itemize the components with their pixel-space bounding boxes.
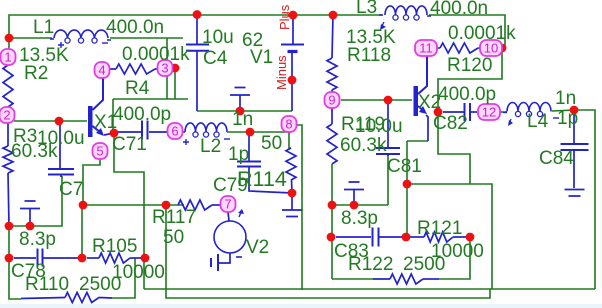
resistor R105 <box>87 253 141 263</box>
wire X2 emitter net down <box>406 141 408 237</box>
junction dot (82,258) <box>78 254 87 263</box>
ground near C7 <box>20 201 40 226</box>
label 400.0n L1 <box>106 17 164 38</box>
svg-text:0.0001k: 0.0001k <box>448 23 516 44</box>
junction dot (30,226) <box>26 222 35 231</box>
capacitor C7 <box>48 122 74 177</box>
wire stage2 mid vertical <box>331 205 333 279</box>
wire R4 feedback bottom <box>113 98 188 100</box>
label V1 <box>250 47 273 68</box>
junction dot (9,38) <box>5 34 14 43</box>
svg-text:R121: R121 <box>417 218 462 239</box>
polarity arrow V2 <box>238 209 244 217</box>
node 4 <box>95 62 110 78</box>
wire node 8 right riser <box>297 125 302 290</box>
label 60.3k R3 <box>11 141 58 162</box>
label 13.5K R118 <box>346 27 396 48</box>
wire R122 left lead <box>332 278 373 280</box>
label 1p right <box>557 108 578 129</box>
wire right edge <box>575 110 595 289</box>
junction dot (83,205) <box>79 201 88 210</box>
wire X2 emitter bend <box>407 140 428 142</box>
label R4 <box>125 78 150 99</box>
inductor L1 <box>50 30 111 43</box>
wire node 5 down <box>83 159 100 205</box>
junction dot (470,237) <box>466 233 475 242</box>
svg-text:R4: R4 <box>125 78 150 99</box>
resistor R118 <box>327 15 337 92</box>
svg-text:2500: 2500 <box>79 274 121 295</box>
resistor R3 <box>3 123 13 226</box>
svg-text:Plus: Plus <box>277 4 292 30</box>
svg-text:0.0001k: 0.0001k <box>122 44 190 65</box>
svg-text:50: 50 <box>261 133 282 154</box>
capacitor C84 <box>561 110 589 188</box>
capacitor C82 <box>443 103 477 121</box>
wire node3 box left side <box>166 38 168 99</box>
polarity minus L1 <box>102 42 108 44</box>
svg-text:R2: R2 <box>24 63 48 84</box>
wire node3 dot to feedback row <box>174 69 176 99</box>
source V2 <box>214 212 246 263</box>
polarity plus L2 <box>183 139 189 145</box>
label 2500 R122 <box>403 254 445 275</box>
label 1n left <box>232 109 253 130</box>
label R2 <box>24 63 48 84</box>
svg-text:R114: R114 <box>237 167 287 191</box>
label C4 <box>203 48 228 69</box>
svg-text:C82: C82 <box>433 113 468 134</box>
wire mid vertical to bottom bus <box>166 205 490 298</box>
svg-text:400.0n: 400.0n <box>430 0 488 19</box>
svg-text:R118: R118 <box>347 45 391 66</box>
label 50 R117 <box>163 227 184 248</box>
label C82 <box>433 113 468 134</box>
resistor R120 <box>437 43 480 53</box>
resistor R121 <box>410 232 466 242</box>
ground under R114 <box>282 193 302 217</box>
svg-text:Minus: Minus <box>274 55 289 90</box>
junction dot (59,121) <box>55 117 64 126</box>
label 60.3k R119 <box>340 135 387 156</box>
label R114 <box>237 167 287 191</box>
svg-text:10u: 10u <box>202 27 234 48</box>
inductor L2 <box>182 123 289 137</box>
label L1 <box>33 17 54 38</box>
ground V2 <box>211 254 218 271</box>
junction dot (332,205) <box>328 201 337 210</box>
label C71 <box>112 134 147 155</box>
svg-text:10.0u: 10.0u <box>355 116 403 137</box>
svg-text:X1: X1 <box>94 112 117 133</box>
svg-text:C7: C7 <box>59 179 83 200</box>
svg-text:11: 11 <box>419 41 433 56</box>
capacitor C79 <box>237 132 292 193</box>
junction dot (574,110) <box>570 106 579 115</box>
node 7 <box>221 196 236 212</box>
label 2500 R110 <box>79 274 121 295</box>
node 11 <box>415 40 437 56</box>
junction dot (502,48) <box>498 44 507 53</box>
wire emitter row to R117 <box>83 204 184 206</box>
svg-text:6: 6 <box>171 124 178 139</box>
label L4 <box>527 111 549 132</box>
label C78 <box>11 261 46 282</box>
label R105 <box>92 236 137 257</box>
capacitor C78 <box>14 249 79 267</box>
svg-text:1: 1 <box>4 50 11 65</box>
junction dot (240,111) <box>236 107 245 116</box>
capacitor C83 <box>336 228 405 247</box>
svg-text:C84: C84 <box>539 148 574 169</box>
label Plus V1 <box>277 4 292 30</box>
label C81 <box>387 156 422 177</box>
label 400.0p C71 <box>113 104 171 125</box>
junction dot (145,258) <box>141 254 150 263</box>
label 0.0001k R120 <box>448 23 516 44</box>
wire L1 row <box>9 37 52 39</box>
svg-text:1n: 1n <box>555 88 576 109</box>
battery V1 <box>281 15 304 111</box>
svg-text:9: 9 <box>328 93 335 108</box>
label 0.0001k R4 <box>122 44 190 65</box>
resistor R114 <box>286 132 296 193</box>
resistor R122 <box>373 274 439 284</box>
label 10u C4 <box>202 27 234 48</box>
svg-text:1p: 1p <box>228 144 249 165</box>
faint bottom artifact band <box>0 304 602 308</box>
wire y184 row <box>407 184 492 289</box>
label L3 <box>356 0 377 18</box>
junction dot (9,226) <box>5 222 14 231</box>
polarity arrow L4 <box>508 119 513 126</box>
svg-text:C81: C81 <box>387 156 422 177</box>
resistor R117 <box>178 200 221 210</box>
wire R110 right riser <box>112 258 135 298</box>
wire feedback to X1 emitter <box>112 99 114 130</box>
label 10000 R121 <box>431 241 484 262</box>
resistor R119 <box>327 108 337 164</box>
label 10.0u C81 <box>355 116 403 137</box>
node 12 <box>478 104 500 120</box>
capacitor C81 <box>376 101 400 156</box>
capacitor C4 <box>186 15 209 111</box>
junction dot (438,112) <box>434 108 443 117</box>
junction dot (333,15) <box>329 11 338 20</box>
svg-text:400.0p: 400.0p <box>438 84 496 105</box>
wire node 2 to X1 base <box>14 120 87 122</box>
label L2 <box>200 136 221 157</box>
svg-text:60.3k: 60.3k <box>11 141 58 162</box>
transistor X1 <box>88 78 114 137</box>
label R110 <box>25 274 69 295</box>
wire C4 V1 ground row <box>197 110 292 112</box>
label R122 <box>348 254 393 275</box>
inductor L3 <box>379 6 431 20</box>
label 62 V1 <box>242 30 263 51</box>
polarity minus L4 <box>553 117 559 119</box>
svg-text:L1: L1 <box>33 17 54 38</box>
svg-text:C71: C71 <box>112 134 147 155</box>
svg-text:12: 12 <box>482 105 496 120</box>
junction dot (292,80) <box>288 76 297 85</box>
svg-text:8: 8 <box>285 117 292 132</box>
junction dot (250,132) <box>246 128 255 137</box>
node 1 <box>1 49 16 65</box>
wire top bus right of L3 <box>429 15 505 48</box>
polarity minus V2 <box>236 256 242 258</box>
junction dot (388,100) <box>384 96 393 105</box>
wire left edge lower <box>9 226 21 299</box>
label C79 <box>213 175 248 196</box>
polarity plus L1 <box>58 42 64 48</box>
wire R119 bottom to ground row <box>331 164 333 205</box>
transistor X2 <box>414 56 429 141</box>
node 5 <box>93 143 108 159</box>
svg-text:R110: R110 <box>25 274 69 295</box>
junction dot (354,205) <box>350 201 359 210</box>
polarity arrow L3 <box>380 22 386 30</box>
wire ground row stage2 <box>332 204 388 206</box>
svg-text:8.3p: 8.3p <box>19 229 56 250</box>
capacitor C71 <box>117 121 167 140</box>
junction dot (407,184) <box>403 180 412 189</box>
svg-text:1n: 1n <box>232 109 253 130</box>
label V2 <box>246 237 269 258</box>
wire X1 emitter net down <box>114 133 144 289</box>
ground near C4 <box>230 88 250 112</box>
node 2 <box>0 107 15 123</box>
wire top supply bus <box>9 15 382 49</box>
node 3 <box>158 60 173 76</box>
wire R3 bottom row <box>9 176 62 226</box>
wire bottom bus <box>144 288 595 290</box>
label R120 <box>447 55 492 76</box>
svg-text:50: 50 <box>163 227 184 248</box>
label 13.5K R2 <box>19 45 69 66</box>
wire C82 net box <box>438 117 470 184</box>
junction dot (9,258) <box>5 254 14 263</box>
wire node12 to L4 <box>500 111 507 113</box>
node 10 <box>480 40 502 56</box>
svg-text:R105: R105 <box>92 236 137 257</box>
resistor R110 <box>21 293 112 303</box>
svg-text:4: 4 <box>98 63 105 78</box>
wire C81 bottom riser <box>387 155 389 205</box>
label 8.3p C83 <box>341 208 378 229</box>
wire L1 to node 3 branch <box>110 37 183 39</box>
svg-text:400.0p: 400.0p <box>113 104 171 125</box>
svg-text:2: 2 <box>3 108 10 123</box>
svg-text:V2: V2 <box>246 237 269 258</box>
svg-text:2500: 2500 <box>403 254 445 275</box>
ground under C84 <box>565 190 585 197</box>
svg-text:400.0n: 400.0n <box>106 17 164 38</box>
junction dot (114,133) <box>110 129 119 138</box>
svg-text:X2: X2 <box>418 92 441 113</box>
label R117 <box>152 207 196 228</box>
svg-text:R122: R122 <box>348 254 393 275</box>
label 10000 R105 <box>112 262 165 283</box>
wire L4 out <box>552 110 575 111</box>
svg-text:R117: R117 <box>152 207 196 228</box>
label 400.0n L3 <box>430 0 488 19</box>
label 50 R114 <box>261 133 282 154</box>
svg-text:60.3k: 60.3k <box>340 135 387 156</box>
label 8.3p C78 <box>19 229 56 250</box>
wire node 9 to X2 base <box>341 99 412 101</box>
node 8 <box>282 116 297 132</box>
svg-text:C4: C4 <box>203 48 228 69</box>
node 6 <box>168 123 183 139</box>
label Minus V1 <box>274 55 289 90</box>
wire R120 feedback box <box>438 48 502 107</box>
label X1 <box>94 112 117 133</box>
node 9 <box>325 92 340 108</box>
label R3 <box>13 126 37 147</box>
svg-text:1p: 1p <box>557 108 578 129</box>
svg-text:L4: L4 <box>527 111 549 132</box>
wire C78 riser <box>81 205 83 258</box>
ground stage2 row <box>344 182 364 205</box>
svg-text:V1: V1 <box>250 47 273 68</box>
junction dot (293,15) <box>289 11 298 20</box>
svg-text:R120: R120 <box>447 55 492 76</box>
label R118 <box>347 45 391 66</box>
label 10.0u C7 <box>37 128 85 149</box>
svg-text:7: 7 <box>224 197 231 212</box>
wire R122 right side <box>439 237 470 279</box>
resistor R4 <box>110 64 158 74</box>
svg-text:8.3p: 8.3p <box>341 208 378 229</box>
inductor L4 <box>503 103 551 117</box>
junction dot (292,193) <box>288 189 297 198</box>
junction dot (406,237) <box>402 233 411 242</box>
junction dot (197,14.5) <box>193 10 202 19</box>
svg-text:5: 5 <box>96 144 103 159</box>
label 1n right <box>555 88 576 109</box>
junction dot (331,237) <box>327 233 336 242</box>
label C83 <box>334 241 369 262</box>
svg-text:L2: L2 <box>200 136 221 157</box>
label R121 <box>417 218 462 239</box>
label X2 <box>418 92 441 113</box>
label R119 <box>341 114 385 135</box>
label C7 <box>59 179 83 200</box>
svg-text:L3: L3 <box>356 0 377 18</box>
label 400.0p C82 <box>438 84 496 105</box>
resistor R2 <box>3 65 13 107</box>
junction dot (175,68) <box>171 64 180 73</box>
label C84 <box>539 148 574 169</box>
polarity minus L2 <box>224 138 230 140</box>
junction dot (166,205) <box>162 201 171 210</box>
label 1p left <box>228 144 249 165</box>
